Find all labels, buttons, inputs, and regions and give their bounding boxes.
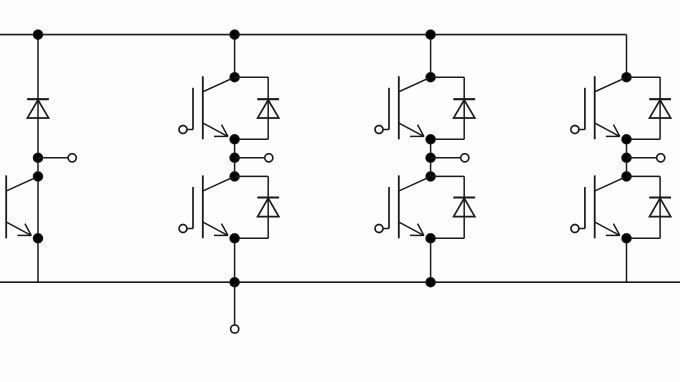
node leg 2 lower collector [426,172,436,182]
terminal W (phase output) [657,154,665,162]
node leg 1 DC+ tap [230,30,240,40]
wire chopper branch vertical (DC+ to chopper emitter) [37,35,39,283]
node leg 3 lower collector [622,172,632,182]
transistor Q7 (brake chopper) (IGBT) [0,175,36,238]
transistor Q2 (IGBT) [187,175,232,238]
transistor Q6 (IGBT) [579,175,624,238]
gate terminal circle of Q5 [571,126,579,134]
node leg 3 upper emitter [622,135,632,145]
diode D1 [257,99,279,118]
wire DC- terminal lead [234,282,236,325]
node chopper IGBT emitter [33,234,43,244]
terminal U (phase output) [265,154,273,162]
diode D2 [257,198,279,217]
node leg 1 upper collector [230,72,240,82]
wire freewheel branch of Q6 [627,176,661,238]
node leg 2 DC- junction [426,277,436,287]
gate terminal circle of Q4 [375,225,383,233]
terminal R (brake resistor output) [68,154,76,162]
wire leg 3 collector drop from DC+ [626,35,628,78]
node leg 1 phase node [230,153,240,163]
transistor Q4 (IGBT) [383,175,428,238]
wire phase terminal lead W [627,157,657,159]
wire freewheel branch of Q3 [431,77,465,139]
node leg 1 lower emitter [230,234,240,244]
node leg 2 phase node [426,153,436,163]
diode D6 [649,198,671,217]
node chopper DC+ tap [33,30,43,40]
wire phase terminal lead U [235,157,265,159]
node leg 2 lower emitter [426,234,436,244]
wire brake terminal lead [38,157,68,159]
wire DC+ bus rail [0,34,627,36]
node leg 3 phase node [622,153,632,163]
node leg 1 lower collector [230,172,240,182]
wire freewheel branch of Q1 [235,77,269,139]
wire leg 1 upper-emitter to lower-collector [234,139,236,176]
diode D4 [453,198,475,217]
terminal V (phase output) [461,154,469,162]
wire leg 2 lower-emitter to DC- [430,238,432,282]
node chopper IGBT collector [33,172,43,182]
transistor Q5 (IGBT) [579,76,624,139]
transistor Q3 (IGBT) [383,76,428,139]
wire leg 1 collector drop from DC+ [234,35,236,78]
wire freewheel branch of Q4 [431,176,465,238]
node leg 2 upper emitter [426,135,436,145]
diode D3 [453,99,475,118]
node leg 3 upper collector [622,72,632,82]
node chopper brake-resistor junction [33,153,43,163]
node leg 3 lower emitter [622,234,632,244]
wire leg 1 lower-emitter to DC- [234,238,236,282]
terminal DC- output [231,325,239,333]
gate terminal circle of Q3 [375,126,383,134]
transistor Q1 (IGBT) [187,76,232,139]
diode D5 [649,99,671,118]
diode D7 (brake chopper freewheel) [27,99,49,118]
wire leg 2 collector drop from DC+ [430,35,432,78]
gate terminal circle of Q6 [571,225,579,233]
wire leg 3 upper-emitter to lower-collector [626,139,628,176]
node leg 1 upper emitter [230,135,240,145]
wire freewheel branch of Q5 [627,77,661,139]
wire leg 2 upper-emitter to lower-collector [430,139,432,176]
node leg 1 DC- junction [230,277,240,287]
gate terminal circle of Q2 [179,225,187,233]
wire leg 3 lower-emitter to DC- [626,238,628,282]
wire phase terminal lead V [431,157,461,159]
node leg 2 DC+ tap [426,30,436,40]
gate terminal circle of Q1 [179,126,187,134]
wire freewheel branch of Q2 [235,176,269,238]
wire DC- bus rail [0,281,680,283]
node leg 2 upper collector [426,72,436,82]
